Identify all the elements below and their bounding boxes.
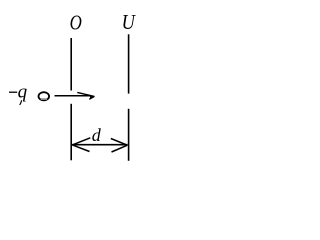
svg-text:d: d [92,125,102,145]
svg-text:O: O [70,11,82,35]
svg-text:U: U [122,10,137,34]
svg-text:q: q [18,82,28,103]
